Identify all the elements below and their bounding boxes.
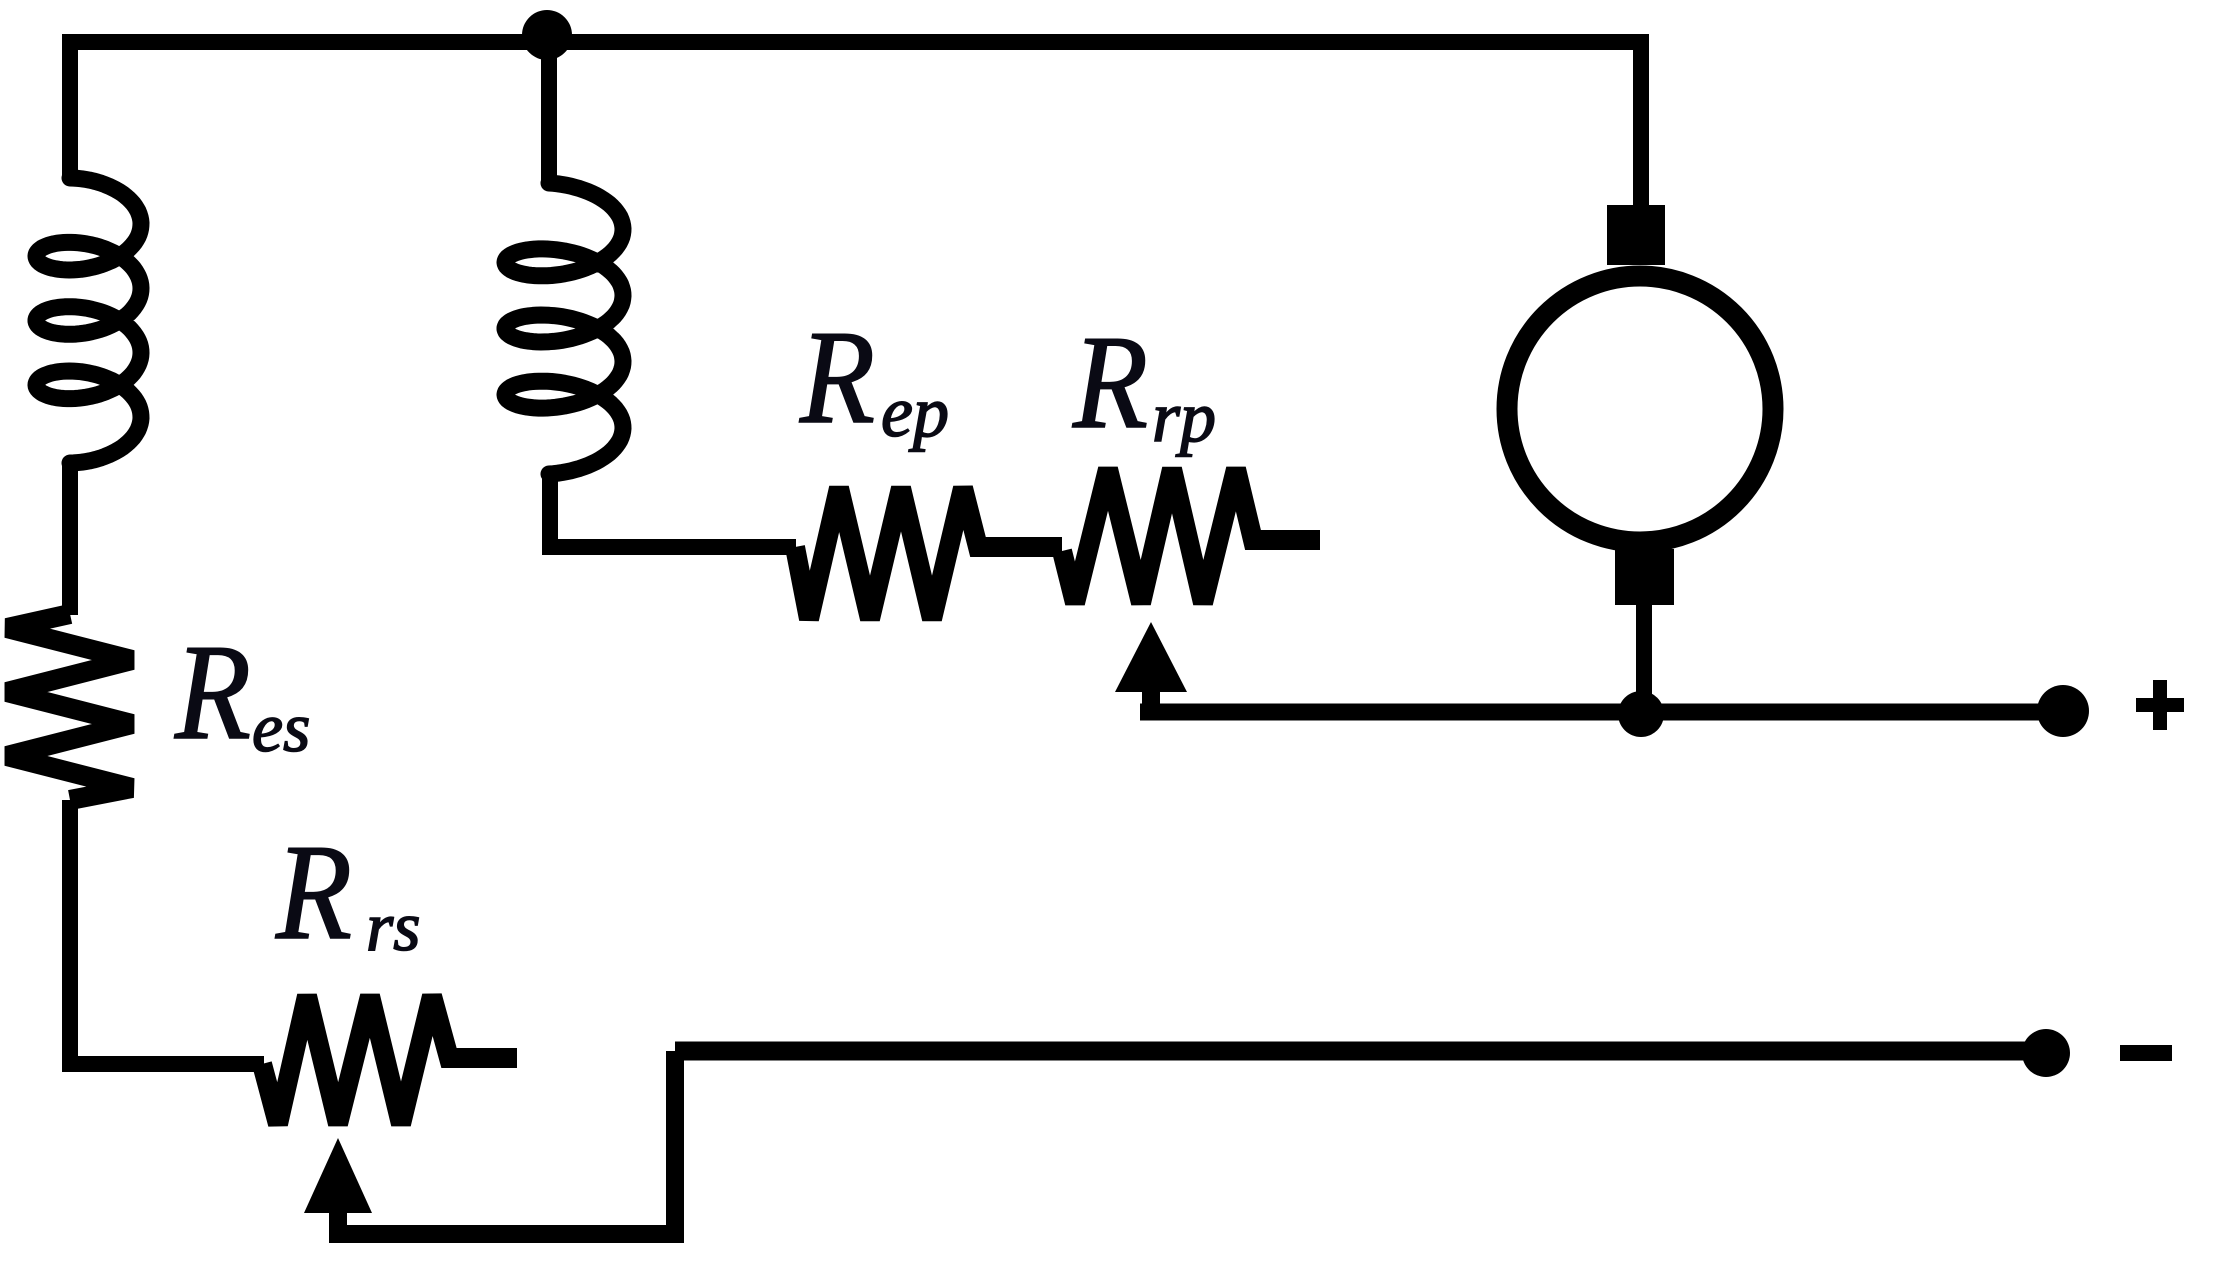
resistor Res (series field resistor, vertical zigzag) xyxy=(7,614,132,800)
wiper arrow of Rrp xyxy=(1115,622,1187,692)
motor M1: top lead xyxy=(1633,42,1649,205)
wire: top horizontal bus xyxy=(63,34,1649,50)
svg-text:ep: ep xyxy=(881,372,949,452)
resistor Rrs (rheostat, horizontal zigzag) xyxy=(262,996,517,1124)
minus sign xyxy=(2120,1045,2172,1061)
wire: junction drop to L2 xyxy=(541,42,557,185)
svg-text:R: R xyxy=(1072,308,1148,456)
svg-text:es: es xyxy=(252,690,310,767)
wire: top-left vertical drop to L1 xyxy=(62,34,78,180)
wire: plus bus xyxy=(1140,704,2063,721)
wire: minus bus xyxy=(675,1042,2046,1061)
wire: L2 bottom down and right to Rep xyxy=(550,470,796,547)
wiper arrow of Rrs xyxy=(304,1138,372,1213)
inductor L1 (left field winding) xyxy=(36,178,141,463)
plus sign xyxy=(2136,680,2184,730)
resistor Rep (zigzag) xyxy=(795,488,1062,619)
wire: Rrp wiper stem to plus bus xyxy=(1142,686,1160,712)
wire: Rrs wiper stem, bottom run and riser to minus bus xyxy=(338,1051,675,1234)
resistor Rrp (rheostat zigzag) xyxy=(1062,469,1320,603)
motor M1: top brush block xyxy=(1607,205,1665,265)
wire: L1 bottom to Res xyxy=(62,461,78,615)
svg-text:R: R xyxy=(174,616,251,768)
node A: junction dot at top bus xyxy=(522,10,572,60)
svg-text:R: R xyxy=(275,816,352,968)
terminal dot minus xyxy=(2022,1029,2070,1077)
wire: Res bottom down and right to Rrs xyxy=(70,800,264,1064)
motor M1: bottom lead xyxy=(1636,605,1652,712)
terminal dot plus xyxy=(2037,685,2089,737)
svg-text:rp: rp xyxy=(1152,377,1216,457)
svg-text:rs: rs xyxy=(366,889,420,966)
node B: junction dot under motor xyxy=(1618,691,1664,737)
svg-text:R: R xyxy=(799,303,875,451)
motor M1: armature circle xyxy=(1507,276,1773,542)
inductor L2 (second winding) xyxy=(505,183,623,474)
motor M1: bottom brush block xyxy=(1615,549,1674,605)
